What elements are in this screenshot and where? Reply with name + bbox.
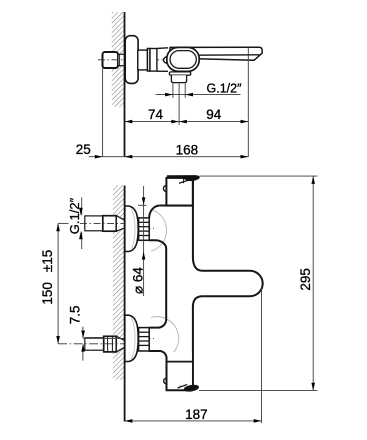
outlet centre extension line (top view) xyxy=(178,84,180,126)
knob stem xyxy=(118,54,125,65)
wall flange (top view escutcheon) xyxy=(125,36,138,84)
body oval inner xyxy=(170,51,196,69)
base mask xyxy=(168,352,192,389)
lower thread block xyxy=(139,328,150,351)
base joint line xyxy=(167,361,193,363)
handle knob extension line xyxy=(102,68,104,157)
G1/2 dimension line (top view) xyxy=(156,94,241,96)
neck segment 1 xyxy=(138,50,148,70)
bottom outlet blade line xyxy=(177,384,187,388)
lower escutcheon flange xyxy=(125,315,138,361)
svg-text:168: 168 xyxy=(176,142,199,157)
body right edge (above spout) xyxy=(192,180,194,259)
dim 7.5 xyxy=(82,327,84,338)
spout tip extension line (187) xyxy=(261,289,263,424)
lower thread bottom step to base xyxy=(149,351,167,358)
dim dia 64 xyxy=(143,186,145,296)
wall hatch (top view) xyxy=(112,12,125,107)
svg-text:150: 150 xyxy=(40,282,55,305)
upper thread bottom step to mid body xyxy=(149,240,166,248)
mid body left edge xyxy=(165,248,167,320)
head bottom joint line xyxy=(160,205,193,207)
wall face line (top view) xyxy=(124,12,126,157)
body flare: head step to upper thread xyxy=(149,206,160,218)
spout (front view) xyxy=(193,258,263,307)
upper union nut xyxy=(103,216,117,232)
spout tip extension line (top view) xyxy=(247,48,249,157)
spout mid line (top view) xyxy=(197,54,259,56)
neck segment 2 xyxy=(150,49,157,72)
bottom outlet faint housing xyxy=(179,386,185,390)
svg-text:7.5: 7.5 xyxy=(67,306,82,325)
base left edge xyxy=(167,357,190,390)
svg-text:74: 74 xyxy=(148,107,164,122)
centerline (top view) xyxy=(98,59,164,61)
dim G1/2 (front view) xyxy=(81,198,83,216)
faint body bulge arc (lower inlet) xyxy=(151,317,179,359)
ring band xyxy=(147,49,150,72)
temp button bump (top view) xyxy=(164,57,170,63)
svg-text:25: 25 xyxy=(76,142,91,157)
lever handle (dark) xyxy=(167,175,200,181)
dim line 74/94 xyxy=(125,121,249,123)
top extension line (295) xyxy=(200,175,318,177)
wall face line (front view) xyxy=(124,186,126,422)
outlet disc below oval xyxy=(169,72,191,75)
dim line 25/168 xyxy=(89,156,249,158)
upper taper cone xyxy=(116,216,125,232)
bottom outlet dark blob xyxy=(183,384,199,393)
dim 150 ±15 xyxy=(58,222,69,224)
base bump xyxy=(164,378,170,384)
upper nipple centreline xyxy=(80,222,126,224)
lower taper cone xyxy=(116,336,125,352)
dim 187 xyxy=(125,420,262,422)
head bump (temp button) xyxy=(163,186,169,192)
body right edge (below spout) xyxy=(192,306,194,387)
lower inlet pipe xyxy=(85,338,104,350)
lower thread top step to mid body xyxy=(149,319,166,327)
spout (top view) xyxy=(170,47,262,60)
lower hex nut xyxy=(104,336,117,352)
svg-text:G.1/2″: G.1/2″ xyxy=(207,81,243,95)
svg-text:⌀ 64: ⌀ 64 xyxy=(131,267,146,294)
faint body bulge arc (upper inlet) xyxy=(151,209,167,251)
neck to body top/bottom connectors xyxy=(157,47,168,50)
G1/2 extension lines (top view) xyxy=(172,84,174,98)
outlet cylinder G1/2 (top view) xyxy=(171,75,186,82)
svg-text:±15: ±15 xyxy=(40,250,55,272)
bottom extension line (295) xyxy=(199,389,318,391)
upper thread block xyxy=(139,218,150,240)
upper escutcheon flange xyxy=(125,206,138,252)
cartridge head rect xyxy=(166,178,193,206)
lever under-line xyxy=(179,180,188,183)
lower body centreline ext (7.5 dim) xyxy=(83,337,125,339)
svg-text:G.1/2″: G.1/2″ xyxy=(67,197,82,234)
dim 295 xyxy=(312,176,314,391)
wall hatch (front view) xyxy=(113,186,125,380)
upper body centreline xyxy=(126,228,154,230)
lower nipple centreline xyxy=(58,343,126,345)
svg-text:295: 295 xyxy=(298,268,313,291)
svg-text:187: 187 xyxy=(185,407,208,422)
handle knob xyxy=(103,52,119,68)
svg-text:94: 94 xyxy=(206,107,222,122)
upper inlet pipe xyxy=(85,216,103,231)
body oval outer (top view) xyxy=(167,47,199,71)
